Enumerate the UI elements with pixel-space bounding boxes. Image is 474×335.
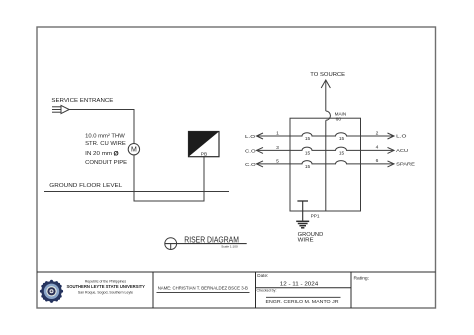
svg-text:15: 15 [305,150,311,156]
svg-text:WIRE: WIRE [298,237,315,243]
svg-text:Date:: Date: [257,273,268,278]
university name block [66,280,145,295]
C.O load label left (ckt3) [245,149,256,154]
ACU load label right (ckt4) [396,148,409,153]
wire: service entrance to meter to pull box [69,110,204,202]
svg-text:6: 6 [376,158,379,164]
svg-text:2: 2 [376,130,379,136]
breaker 15A (ckt1) [305,136,311,142]
svg-text:C.O: C.O [245,149,256,154]
service entrance symbol [52,105,69,113]
svg-text:5: 5 [276,159,279,165]
svg-text:12 - 11 - 2024: 12 - 11 - 2024 [280,282,319,288]
to source arrow [321,80,330,111]
svg-text:15: 15 [305,136,311,142]
breaker 15A (ckt2) [339,136,345,142]
svg-text:CONDUIT PIPE: CONDUIT PIPE [85,160,127,166]
to source label [310,72,345,78]
circuit 3-4 wire with breakers [257,147,395,153]
svg-text:SERVICE ENTRANCE: SERVICE ENTRANCE [51,98,113,104]
L.O load label right (ckt2) [396,134,407,139]
svg-text:Ø: Ø [114,151,119,158]
svg-text:1: 1 [276,131,279,137]
svg-text:15: 15 [339,136,345,142]
circuit 5-6 wire with breakers [257,161,395,167]
L.O load label left (ckt1) [245,134,256,139]
service entrance label [51,98,113,104]
svg-text:4: 4 [376,145,379,151]
earth ground symbol [296,221,309,228]
ground wire [302,201,304,221]
svg-text:STR. CU WIRE: STR. CU WIRE [85,141,126,147]
svg-text:Rating:: Rating: [354,276,370,282]
svg-text:L.O: L.O [396,134,407,139]
breaker 15A (ckt4) [339,150,345,156]
svg-text:Checked by:: Checked by: [257,288,277,292]
panel board enclosure PP1 [290,118,361,211]
svg-text:San Roque, Sogod, Southern Ley: San Roque, Sogod, Southern Leyte [78,290,133,294]
circuit 5 number [276,159,279,165]
svg-text:TO SOURCE: TO SOURCE [310,72,345,78]
svg-text:PB: PB [201,152,207,158]
C.O load label left (ckt5) [245,162,256,167]
svg-text:15: 15 [305,164,311,170]
rating cell [354,276,370,282]
svg-text:RISER DIAGRAM: RISER DIAGRAM [184,235,239,245]
conductor spec label [85,134,127,166]
svg-text:3: 3 [276,145,279,151]
circuit 1 number [276,131,279,137]
ground floor level line [44,191,229,193]
meter M [128,144,139,155]
svg-text:Scale 1:100: Scale 1:100 [221,244,238,248]
svg-text:MAIN: MAIN [335,111,347,117]
breaker 15A (ckt5) [305,164,311,170]
svg-text:ACU: ACU [396,148,409,153]
svg-text:Republic of the Philippines: Republic of the Philippines [85,280,126,284]
svg-text:M: M [131,147,137,154]
svg-text:15: 15 [339,150,345,156]
svg-text:GROUND FLOOR LEVEL: GROUND FLOOR LEVEL [49,183,122,189]
main breaker 60A [326,111,347,123]
svg-text:10.0 mm² THW: 10.0 mm² THW [85,134,125,140]
circuit 2 number [376,130,379,136]
title block [37,272,436,308]
ground wire label [298,232,324,243]
svg-text:PP1: PP1 [311,213,320,218]
riser diagram title callout [165,235,247,250]
date cell [256,273,352,304]
circuit 1-2 wire with breakers [257,133,395,139]
ground terminal bar [297,200,308,202]
svg-text:IN 20 mm: IN 20 mm [85,151,112,157]
svg-text:SOUTHERN LEYTE STATE UNIVERSIT: SOUTHERN LEYTE STATE UNIVERSITY [66,284,145,290]
pull box PB [189,132,220,158]
circuit 4 number [376,145,379,151]
svg-text:60: 60 [336,117,342,123]
svg-text:L.O: L.O [245,134,256,139]
circuit 3 number [276,145,279,151]
drafter name cell [157,285,250,292]
circuit 6 number [376,158,379,164]
SPARE load label right (ckt6) [396,161,415,166]
PP1 label [311,213,320,218]
svg-text:NAME: CHRISTIAN T. BERNALDEZ B: NAME: CHRISTIAN T. BERNALDEZ BSCE 3-B [158,285,248,290]
svg-text:ENGR. CERILO M. MANTO JR: ENGR. CERILO M. MANTO JR [266,299,340,304]
svg-text:SPARE: SPARE [396,161,415,166]
university seal logo [40,280,63,303]
ground floor level label [49,183,122,189]
svg-text:C.O: C.O [245,162,256,167]
breaker 15A (ckt3) [305,150,311,156]
